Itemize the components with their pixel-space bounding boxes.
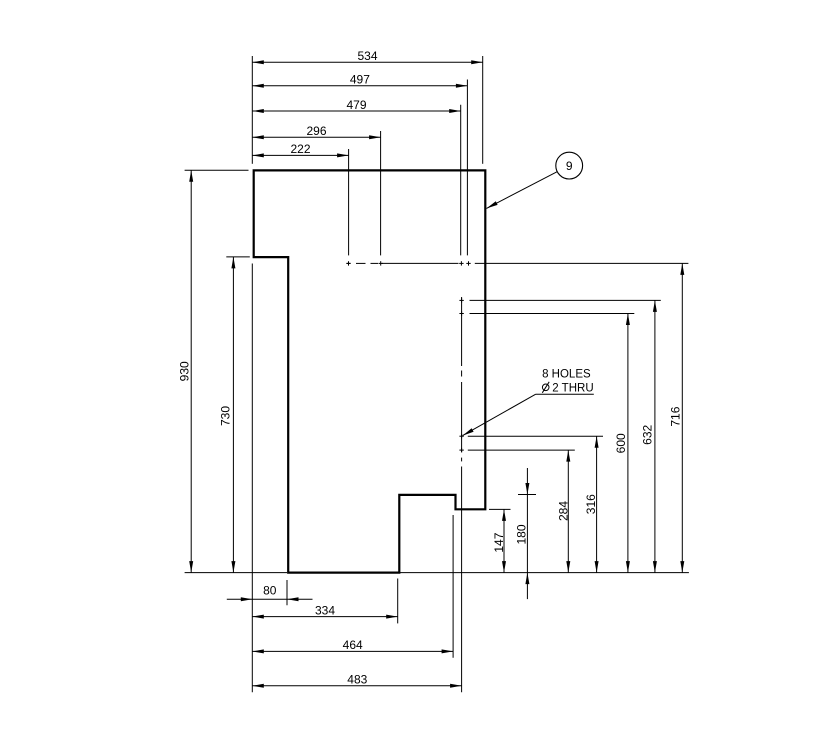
extension line 464	[452, 515, 454, 658]
svg-text:296: 296	[306, 124, 326, 138]
dimension 222	[252, 142, 348, 157]
extension line 479	[460, 105, 462, 256]
dimension 483	[252, 673, 461, 688]
svg-text:483: 483	[347, 673, 367, 687]
svg-text:8 HOLES: 8 HOLES	[542, 369, 591, 381]
extension line left datum bottom	[251, 264, 253, 693]
hole 1	[346, 261, 350, 265]
hole 5	[459, 298, 463, 302]
dimension 600	[614, 314, 630, 573]
svg-text:9: 9	[566, 159, 573, 173]
extension line hole row 316	[468, 435, 603, 437]
extension line notch bottom 147	[489, 508, 511, 510]
extension line 296	[380, 131, 382, 255]
svg-text:497: 497	[350, 73, 370, 87]
svg-text:600: 600	[614, 433, 628, 453]
svg-text:180: 180	[514, 524, 528, 544]
svg-text:716: 716	[669, 406, 683, 426]
svg-text:222: 222	[290, 142, 310, 156]
extension line 222	[348, 149, 350, 255]
extension line 334	[397, 579, 399, 624]
extension line 80	[286, 580, 288, 605]
svg-text:316: 316	[584, 494, 598, 514]
leader balloon 9	[487, 172, 558, 209]
dimension 730	[219, 257, 236, 573]
extension line 497	[466, 80, 468, 256]
note dia 2 THRU	[542, 382, 593, 395]
dimension 716	[669, 263, 685, 572]
extension line step 730	[226, 256, 250, 258]
extension line left datum top	[251, 56, 253, 164]
extension line bottom edge right	[400, 572, 689, 574]
extension line hole row 284	[468, 449, 575, 451]
extension line hole row 632	[470, 299, 661, 301]
part outline profile	[254, 170, 486, 572]
dimension 534	[252, 49, 482, 64]
svg-text:80: 80	[263, 584, 277, 598]
svg-text:334: 334	[315, 603, 335, 617]
dimension 632	[641, 300, 657, 572]
extension line notch top 180	[518, 494, 536, 496]
svg-text:930: 930	[178, 361, 192, 381]
extension line 534	[482, 56, 484, 164]
dimension 147	[492, 509, 506, 572]
dimension 284	[556, 450, 570, 572]
hole 8	[459, 448, 463, 452]
svg-text:2 THRU: 2 THRU	[552, 382, 593, 394]
hole 7	[459, 434, 463, 438]
centerline hole row horizontal dashed	[347, 262, 689, 264]
extension line top edge left	[185, 169, 249, 171]
dimension 497	[252, 73, 467, 88]
hole 2	[379, 261, 383, 265]
svg-text:147: 147	[492, 532, 506, 552]
svg-text:464: 464	[343, 638, 363, 652]
dimension 316	[584, 436, 598, 572]
svg-text:534: 534	[357, 49, 377, 63]
dimension 930	[178, 170, 194, 572]
dimension 479	[252, 98, 460, 113]
hole 4	[466, 261, 470, 265]
dimension 80	[227, 584, 313, 602]
extension line bottom edge left	[185, 572, 287, 574]
dimension 180	[514, 468, 529, 599]
dimension 334	[252, 603, 397, 618]
dimension 296	[252, 124, 380, 139]
svg-text:632: 632	[641, 424, 655, 444]
hole 3	[459, 261, 463, 265]
extension line hole row 600	[470, 313, 635, 315]
svg-text:479: 479	[346, 98, 366, 112]
svg-text:284: 284	[556, 501, 570, 521]
leader holes note	[463, 394, 594, 435]
hole 6	[459, 311, 463, 315]
svg-text:730: 730	[219, 406, 233, 426]
dimension 464	[252, 638, 453, 653]
balloon 9	[556, 152, 583, 179]
centerline hole column vertical dashed	[461, 297, 463, 692]
